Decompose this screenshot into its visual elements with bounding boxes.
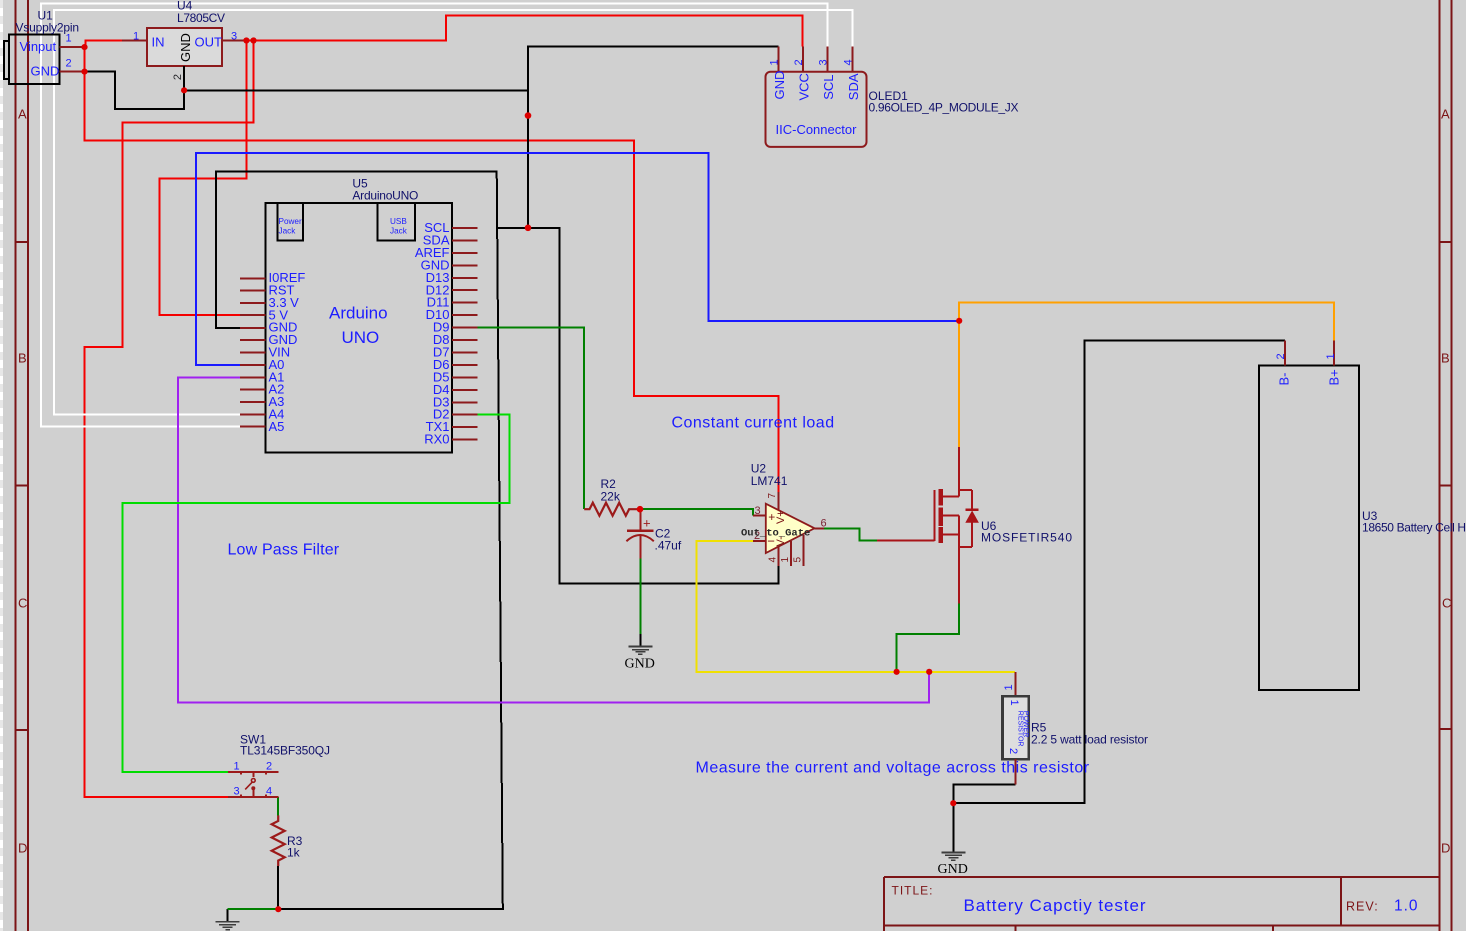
junction U4 OUT a: [243, 37, 249, 43]
wire D2 bright green to SW1.1: [122, 414, 509, 772]
wire D9 green to R2: [478, 328, 585, 510]
svg-text:TL3145BF350QJ: TL3145BF350QJ: [240, 744, 330, 758]
battery holder U3: [1259, 340, 1466, 690]
capacitor C2 .47uf: [626, 509, 681, 558]
svg-text:3: 3: [234, 786, 240, 798]
wire B- black battery to R5/GND node: [953, 340, 1285, 803]
wire SCL white OLED.3 to Arduino A5: [41, 3, 828, 426]
junction source/yellow node: [894, 669, 900, 675]
svg-text:+: +: [643, 516, 651, 531]
svg-text:MOSFETIR540: MOSFETIR540: [981, 531, 1072, 545]
svg-text:B-: B-: [1277, 373, 1292, 386]
junction yellow/purple node: [926, 669, 932, 675]
svg-text:IIC-Connector: IIC-Connector: [776, 122, 858, 137]
svg-text:D: D: [18, 841, 27, 856]
svg-text:RX0: RX0: [424, 432, 449, 447]
svg-text:4: 4: [768, 557, 779, 563]
svg-text:SDA: SDA: [846, 73, 861, 100]
wire GND black Arduino loop: [216, 172, 503, 910]
svg-text:2: 2: [1007, 748, 1019, 754]
svg-text:1: 1: [66, 33, 72, 45]
svg-text:USB: USB: [390, 217, 407, 226]
svg-text:1: 1: [1325, 353, 1337, 359]
svg-text:4: 4: [843, 59, 855, 65]
wire 5V red U4.OUT down to Arduino 5V: [160, 41, 247, 316]
svg-text:3: 3: [818, 59, 830, 65]
svg-text:REV:: REV:: [1346, 900, 1379, 914]
svg-text:2: 2: [793, 59, 805, 65]
svg-text:6: 6: [821, 518, 827, 530]
svg-text:1: 1: [1008, 700, 1020, 706]
svg-text:3: 3: [231, 31, 237, 43]
wire GND black U4.2 to OLED GND riser: [184, 89, 528, 91]
svg-text:2.2 5 watt load resistor: 2.2 5 watt load resistor: [1031, 733, 1148, 747]
junction GND net at Arduino loop: [525, 225, 532, 232]
svg-text:IN: IN: [152, 35, 165, 50]
svg-text:Power: Power: [279, 217, 302, 226]
svg-text:0.96OLED_4P_MODULE_JX: 0.96OLED_4P_MODULE_JX: [869, 101, 1019, 115]
wire +Vin red U4.OUT to OLED VCC: [246, 16, 802, 47]
wire Vin red U1 down to op-amp V+: [85, 47, 779, 492]
svg-text:C: C: [1442, 596, 1451, 611]
svg-text:7: 7: [767, 493, 778, 499]
svg-text:Jack: Jack: [279, 227, 297, 236]
ground GND under R5: [938, 852, 968, 877]
regulator U4 L7805CV: [122, 0, 246, 90]
mosfet U6 MOSFETIR540: [877, 447, 1072, 604]
wire green SW1.4 to R3: [277, 797, 279, 815]
svg-text:A: A: [1441, 107, 1450, 122]
svg-text:2: 2: [266, 761, 272, 773]
op-amp U2 LM741: [741, 462, 827, 567]
wire GND black U1.2 loop to U4.2: [85, 72, 185, 109]
svg-text:RESISTOR: RESISTOR: [1017, 711, 1024, 747]
wire green R2 to op-amp +: [641, 509, 754, 516]
svg-text:B: B: [18, 351, 27, 366]
frame row letters: [18, 107, 1451, 856]
wire SDA white OLED.4 to Arduino A4: [54, 10, 853, 415]
wire orange MOSFET drain to battery B+: [959, 303, 1334, 448]
svg-text:Low Pass Filter: Low Pass Filter: [228, 542, 340, 559]
svg-text:VCC: VCC: [796, 73, 811, 100]
svg-text:1: 1: [234, 761, 240, 773]
arduino U5 left pin names: [269, 270, 306, 434]
wire A0 blue Arduino A0 to battery sense: [196, 153, 959, 365]
svg-text:Jack: Jack: [390, 227, 408, 236]
connector U1 Vsupply2pin: [4, 9, 85, 85]
title block: [884, 877, 1440, 931]
junction U1 pin2: [81, 69, 87, 75]
svg-text:2: 2: [172, 74, 184, 80]
junction R3 ground node: [275, 906, 281, 912]
resistor R5 power resistor: [1003, 672, 1149, 785]
junction GND riser: [525, 112, 532, 119]
resistor R2 22k: [584, 477, 640, 516]
wire GND black R5.2 to ground: [953, 785, 1015, 852]
svg-text:3: 3: [755, 505, 761, 517]
svg-text:B: B: [1441, 351, 1450, 366]
svg-text:GND: GND: [625, 657, 655, 672]
wire green C2 to ground: [640, 559, 642, 635]
connector OLED1 IIC: [766, 47, 1019, 147]
svg-text:D: D: [1441, 841, 1450, 856]
wire green R3 node to ground: [228, 908, 279, 910]
svg-text:Vinput: Vinput: [20, 39, 57, 54]
arduino U5 right pin names: [415, 220, 450, 447]
svg-text:B+: B+: [1327, 369, 1342, 385]
wire green op-amp out to gate: [824, 528, 877, 540]
svg-text:2: 2: [1275, 353, 1287, 359]
svg-text:L7805CV: L7805CV: [177, 11, 225, 25]
junction U1 pin1: [81, 44, 87, 50]
svg-text:18650 Battery Cell Holder: 18650 Battery Cell Holder: [1362, 521, 1466, 535]
svg-text:2: 2: [66, 58, 72, 70]
svg-text:OUT: OUT: [195, 35, 223, 50]
svg-text:UNO: UNO: [342, 328, 380, 347]
wire GND black riser to OLED GND: [528, 47, 778, 228]
ground GND under C2: [625, 634, 655, 672]
junction R5 ground node: [950, 800, 956, 806]
svg-text:A: A: [18, 107, 27, 122]
svg-text:1: 1: [768, 59, 780, 65]
wire green MOSFET source to R5 node: [897, 604, 960, 672]
svg-text:.47uf: .47uf: [655, 539, 682, 553]
svg-text:GND: GND: [31, 64, 60, 79]
wire Vin red U1.1 to U4.IN: [85, 41, 123, 48]
junction U4 OUT b: [250, 37, 256, 43]
svg-text:1: 1: [133, 31, 139, 43]
switch SW1 TL3145BF350QJ: [228, 733, 330, 798]
arduino U5 ArduinoUNO: [265, 177, 452, 453]
svg-text:1: 1: [1003, 684, 1015, 690]
svg-text:Battery Capctiy tester: Battery Capctiy tester: [964, 896, 1146, 915]
svg-text:GND: GND: [178, 33, 193, 62]
arduino U5 right pins: [452, 228, 478, 440]
svg-text:Arduino: Arduino: [329, 304, 388, 323]
svg-text:Constant current load: Constant current load: [672, 415, 835, 432]
wire GND black branch to op-amp V- supply: [497, 228, 778, 584]
svg-text:A5: A5: [269, 419, 285, 434]
svg-text:22k: 22k: [601, 490, 621, 504]
svg-text:TITLE:: TITLE:: [892, 884, 934, 898]
svg-text:1k: 1k: [287, 846, 301, 860]
svg-text:GND: GND: [938, 862, 968, 877]
wire Vin red branch down-left to SW1 area: [85, 41, 254, 797]
svg-text:V+: V+: [775, 510, 787, 524]
arduino U5 left pins: [240, 278, 265, 426]
svg-text:ArduinoUNO: ArduinoUNO: [352, 189, 418, 203]
svg-text:Out_to_Gate: Out_to_Gate: [741, 528, 810, 540]
svg-text:5: 5: [793, 557, 804, 563]
svg-text:C: C: [18, 596, 27, 611]
svg-text:Measure the current and voltag: Measure the current and voltage across t…: [696, 760, 1090, 777]
ground GND under R3: [216, 922, 240, 930]
svg-text:1.0: 1.0: [1394, 898, 1419, 915]
wire GND black ground stub left: [227, 909, 229, 922]
wire yellow op-amp inverting to R5.1: [696, 541, 1015, 672]
svg-text:GND: GND: [772, 71, 787, 100]
svg-text:4: 4: [266, 786, 272, 798]
resistor R3 1k: [272, 815, 303, 866]
junction R2/C2 node: [637, 506, 644, 513]
svg-text:LM741: LM741: [751, 474, 788, 488]
junction battery sense node: [956, 318, 962, 324]
junction U4 GND: [181, 87, 187, 93]
svg-text:SCL: SCL: [821, 75, 836, 100]
svg-text:1: 1: [780, 557, 791, 563]
wire GND black R3 bottom to ground rail: [277, 866, 279, 909]
wire A1 purple Arduino A1 to R5 top node: [178, 377, 929, 702]
